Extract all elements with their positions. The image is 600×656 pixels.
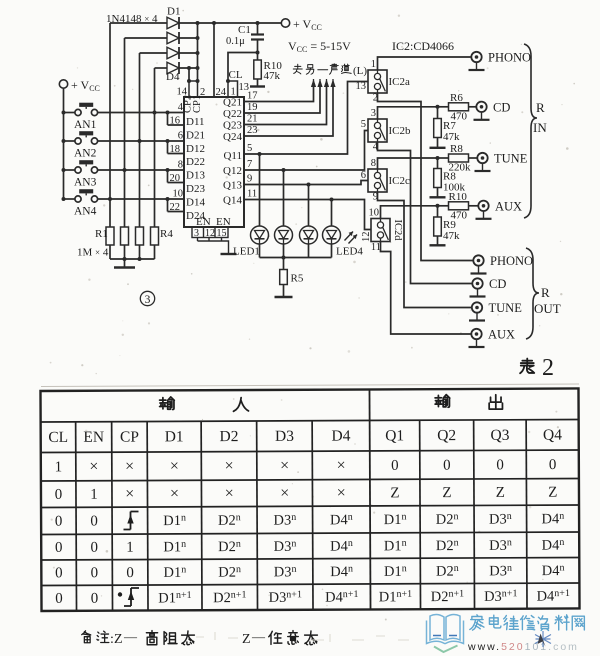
output terminal TUNE (R OUT)	[472, 302, 482, 312]
svg-text:2: 2	[542, 355, 554, 381]
resistor R2	[121, 227, 129, 245]
pin 20 stub box	[167, 170, 169, 183]
watermark: site name (CJK outline)	[470, 615, 484, 630]
header input (CJK)	[160, 397, 175, 410]
resistor R1	[106, 227, 114, 245]
wire: stub left leg to D4 line	[188, 68, 190, 81]
svg-text:Z: Z	[114, 632, 123, 647]
svg-text:0: 0	[496, 457, 504, 473]
node: rail junction	[62, 139, 66, 143]
node R10/R9	[436, 204, 440, 208]
svg-text:1: 1	[55, 459, 63, 475]
svg-text:—: —	[251, 629, 266, 644]
wire: IC2d pin10 to R10/R9 node	[381, 206, 438, 219]
svg-text:1N4148 × 4: 1N4148 × 4	[106, 13, 158, 25]
svg-text:Q12: Q12	[223, 165, 242, 177]
svg-text:R: R	[541, 285, 550, 300]
svg-text:0.1μ: 0.1μ	[226, 36, 245, 47]
wire: switch output to IC1	[98, 140, 184, 142]
svg-text:Q21: Q21	[223, 97, 242, 109]
wire: diode cathode bus down to IC1 clock stub	[197, 23, 199, 81]
svg-text:6: 6	[178, 131, 183, 142]
svg-text:7: 7	[247, 159, 252, 170]
svg-text:1: 1	[126, 540, 134, 556]
svg-text:R4: R4	[160, 228, 173, 240]
svg-text:47k: 47k	[443, 230, 460, 242]
label table-2	[520, 359, 534, 374]
header output (CJK)	[435, 395, 450, 408]
svg-text:CL: CL	[229, 69, 243, 81]
svg-text:PHONO: PHONO	[488, 51, 531, 65]
wire: R1-R4 common rail	[110, 258, 155, 260]
svg-text:Q13: Q13	[223, 180, 242, 192]
node: AN1/column junction	[153, 111, 157, 115]
wire: column v2 (D2 anode to R2/AN3)	[124, 38, 126, 227]
node: Q13 LED tap	[307, 183, 311, 187]
input terminal CD (R IN)	[476, 102, 486, 112]
label: to other channel (L)	[293, 64, 302, 74]
CP rising edge symbols	[118, 512, 139, 607]
svg-text:IC2b: IC2b	[389, 125, 412, 137]
svg-text:22: 22	[170, 202, 181, 213]
svg-text:×: ×	[89, 458, 98, 475]
node: rail junction	[62, 111, 66, 115]
svg-text:Z: Z	[496, 485, 505, 501]
svg-text:9: 9	[247, 174, 252, 185]
svg-text:6: 6	[361, 170, 366, 181]
input terminal TUNE (R IN)	[477, 153, 487, 163]
svg-text:CP: CP	[120, 429, 139, 446]
brace R OUT	[526, 248, 539, 339]
svg-text:Q3: Q3	[490, 427, 509, 444]
wire: switch output to IC1	[98, 198, 184, 200]
svg-text:12: 12	[361, 232, 372, 243]
svg-text:CP1: CP1	[192, 95, 203, 113]
figure number (3)	[140, 291, 154, 305]
LED2	[283, 170, 285, 226]
svg-text:R5: R5	[291, 273, 304, 285]
svg-text:10: 10	[173, 189, 184, 200]
svg-text:23: 23	[247, 125, 258, 136]
svg-text:×: ×	[225, 485, 234, 502]
svg-text:Q2: Q2	[437, 427, 456, 444]
svg-text:Z: Z	[242, 632, 251, 647]
node R8/R8	[436, 156, 440, 160]
node: rail junction	[62, 168, 66, 172]
svg-text:20: 20	[170, 173, 181, 184]
node: Q12 LED tap	[282, 168, 286, 172]
svg-text:TUNE: TUNE	[494, 152, 528, 166]
svg-text:Z: Z	[548, 485, 557, 501]
wire: Q13 to IC2c control	[244, 181, 368, 185]
wire: pin 24 to Vcc line	[213, 23, 215, 97]
svg-text:Q4: Q4	[543, 427, 562, 444]
svg-text:47k: 47k	[443, 131, 460, 143]
svg-text:IC2:CD4066: IC2:CD4066	[392, 39, 454, 53]
svg-text:R: R	[536, 100, 545, 115]
node: AN4/column junction	[108, 197, 112, 201]
svg-text:3: 3	[145, 294, 151, 306]
wire: IC2c pin8 to R8/R8 node	[378, 158, 438, 169]
output terminal PHONO (R OUT)	[473, 255, 483, 265]
switch AN1	[64, 112, 76, 114]
svg-text:www.520101.com: www.520101.com	[467, 641, 579, 653]
svg-text:R6: R6	[450, 92, 463, 104]
faint scan shadow line above table	[41, 384, 579, 387]
resistor R6 470	[438, 106, 449, 108]
resistor R10 (pull-down 47k)	[257, 53, 259, 61]
svg-text:D2: D2	[219, 428, 238, 445]
svg-text:EN: EN	[83, 429, 104, 446]
svg-text:×: ×	[125, 458, 134, 475]
power terminal +Vcc (top)	[281, 19, 289, 27]
svg-text:19: 19	[247, 102, 258, 113]
svg-text:TUNE: TUNE	[489, 301, 523, 315]
svg-text:0: 0	[55, 514, 63, 530]
svg-text:8: 8	[371, 158, 376, 169]
wire: Q12 to IC2b control	[244, 131, 368, 171]
wire: column v3 (D3 anode to R3/AN2)	[139, 53, 141, 227]
svg-text:×: ×	[125, 486, 134, 503]
svg-text:—: —	[123, 629, 138, 644]
node: Q14 LED tap	[330, 198, 334, 202]
switch AN2	[64, 140, 76, 142]
svg-text:IC2c: IC2c	[389, 175, 411, 187]
svg-text:×: ×	[170, 458, 179, 475]
svg-text:×: ×	[225, 458, 234, 475]
pin 16 stub box	[167, 113, 169, 126]
svg-text:21: 21	[247, 114, 258, 125]
svg-text:D12: D12	[186, 143, 205, 155]
ground under R1-R4	[124, 259, 126, 268]
output terminal AUX (R OUT)	[471, 329, 481, 339]
svg-text:Q1: Q1	[385, 427, 404, 444]
svg-text:D4: D4	[331, 428, 350, 445]
resistor R8 220k	[438, 157, 449, 159]
resistor R7 47k	[437, 107, 439, 119]
svg-text:8: 8	[178, 160, 183, 171]
svg-text:0: 0	[90, 513, 98, 529]
svg-text:LED1: LED1	[233, 246, 260, 258]
switch AN4	[64, 198, 76, 200]
svg-text:IN: IN	[533, 120, 547, 135]
input terminal PHONO (R IN)	[471, 52, 481, 62]
diode D4 1N4148	[155, 67, 168, 69]
svg-text:AN1: AN1	[74, 119, 97, 131]
capacitor C1 0.1u	[257, 23, 259, 35]
svg-text:AN4: AN4	[74, 206, 97, 218]
svg-text:IC2a: IC2a	[389, 76, 411, 88]
wire+ground under EN pins	[198, 238, 229, 254]
watermark: asterisk scribble + cursor	[535, 631, 551, 647]
resistor R10 470	[438, 205, 449, 207]
svg-text:D3: D3	[275, 428, 294, 445]
wire: IC2c pin9 to TUNE out bus	[378, 192, 472, 308]
node: diode bus junction	[196, 36, 200, 40]
IC U1 (latch CD4508) body	[184, 97, 244, 227]
svg-text:13: 13	[356, 81, 367, 92]
svg-text:11: 11	[247, 189, 257, 200]
svg-text:OUT: OUT	[534, 301, 561, 316]
wire: Q22 output to channel-L arrow	[244, 86, 320, 113]
svg-text:LED4: LED4	[336, 246, 363, 258]
svg-text:1: 1	[371, 59, 376, 70]
LED3	[308, 185, 310, 227]
node: AN2/column junction	[138, 139, 142, 143]
svg-text:0: 0	[55, 487, 63, 503]
wire: D1 cathode to Vcc line	[179, 22, 281, 24]
svg-text:0: 0	[55, 591, 63, 607]
svg-text:18: 18	[170, 144, 181, 155]
svg-text:R8: R8	[450, 143, 463, 155]
svg-text:×: ×	[280, 457, 289, 474]
node: bus/Vcc-line junction	[196, 21, 200, 25]
svg-text:Q24: Q24	[223, 131, 242, 143]
svg-text:0: 0	[91, 565, 99, 581]
diode D2 1N4148	[125, 37, 168, 39]
svg-text:D21: D21	[186, 129, 205, 141]
svg-text:D14: D14	[186, 196, 205, 208]
resistor R8 100k	[437, 158, 439, 169]
svg-text:11: 11	[371, 242, 381, 253]
svg-text:D13: D13	[186, 170, 205, 182]
svg-text:1M × 4: 1M × 4	[77, 247, 109, 259]
svg-text:EN: EN	[216, 216, 231, 228]
svg-text:C1: C1	[238, 24, 251, 36]
svg-text:AUX: AUX	[488, 328, 515, 342]
svg-text:Z: Z	[442, 485, 451, 501]
wire: IC2b pin4 to CD out bus	[378, 142, 473, 284]
svg-text:0: 0	[443, 458, 451, 474]
table column lines	[369, 389, 370, 609]
svg-text:Q23: Q23	[223, 120, 242, 132]
svg-text:CL: CL	[48, 429, 68, 446]
resistor R5	[283, 258, 285, 270]
analog switch IC2d	[371, 219, 390, 242]
faint print-bleed marks	[196, 632, 409, 642]
svg-text:5: 5	[247, 143, 252, 154]
brace R IN	[524, 44, 537, 218]
wire: Q21 output to channel-L arrow	[244, 86, 314, 102]
LED light arrows	[345, 232, 358, 244]
svg-text:Z: Z	[390, 485, 399, 501]
svg-text:D1: D1	[165, 428, 184, 445]
svg-text:×: ×	[337, 485, 346, 502]
diode D3 1N4148	[140, 52, 168, 54]
svg-text:3: 3	[371, 108, 376, 119]
wire: IC2a pin2 to PHONO out bus	[378, 93, 474, 261]
LED4	[331, 200, 333, 227]
svg-text:0: 0	[549, 457, 557, 473]
node R6/R7	[436, 105, 440, 109]
wire: Q11 to IC2a control	[244, 82, 368, 155]
svg-text:(L): (L)	[353, 65, 367, 77]
resistor R9 47k	[437, 206, 439, 217]
wire: IC2d pin11 to AUX out bus	[381, 242, 472, 335]
svg-text:D4: D4	[166, 71, 180, 83]
LED1	[259, 154, 261, 226]
svg-text:PHONO: PHONO	[490, 254, 533, 268]
svg-text:EN: EN	[196, 216, 211, 228]
node: diode bus junction	[196, 51, 200, 55]
node: diode bus junction	[196, 66, 200, 70]
svg-text:D11: D11	[186, 116, 205, 128]
svg-text:×: ×	[280, 485, 289, 502]
svg-text:R10: R10	[449, 191, 468, 203]
wire: Q23 output to channel-L arrow	[244, 86, 327, 125]
node: Q11 LED tap	[258, 152, 262, 156]
svg-text:15: 15	[217, 228, 227, 239]
svg-text:CD: CD	[493, 100, 510, 114]
node: rail/AN4 junction	[62, 197, 66, 201]
svg-text:AN2: AN2	[74, 148, 97, 160]
svg-text:5: 5	[361, 119, 366, 130]
watermark: book logo	[427, 614, 464, 643]
wire: switch output to IC1	[98, 169, 184, 171]
pin stub 1/CL	[228, 81, 238, 97]
svg-text:0: 0	[391, 458, 399, 474]
svg-text:IC2d: IC2d	[392, 220, 403, 242]
svg-text:0: 0	[91, 591, 99, 607]
wire: switch output to IC1	[98, 112, 184, 114]
svg-text:Q22: Q22	[223, 108, 242, 120]
svg-text:3: 3	[194, 228, 199, 239]
svg-text:×: ×	[170, 485, 179, 502]
pin 22 stub box	[167, 199, 169, 212]
wire: Q14 to IC2d control	[244, 200, 371, 230]
node: AN3/column junction	[123, 168, 127, 172]
svg-text:0: 0	[55, 565, 63, 581]
wire: IC2b pin3 to R6/R7 node	[378, 107, 438, 119]
svg-text:0: 0	[90, 540, 98, 556]
svg-text:D22: D22	[186, 156, 205, 168]
svg-text:0: 0	[126, 565, 134, 581]
svg-text:Q11: Q11	[223, 150, 242, 162]
wire: LED cathode bus	[260, 257, 332, 259]
svg-text:47k: 47k	[264, 70, 281, 82]
truth table frame	[40, 388, 579, 611]
bottom stub cells pins 3/12/15	[192, 227, 228, 238]
wire: IC2a pin1 to PHONO in	[378, 57, 472, 70]
analog switch IC2a	[368, 70, 387, 93]
wire: CL bend from C1 node	[228, 53, 258, 82]
diode D1 1N4148	[110, 22, 167, 24]
svg-text:D1: D1	[167, 6, 180, 18]
input terminal AUX (R IN)	[478, 201, 488, 211]
svg-text:AN3: AN3	[74, 177, 97, 189]
svg-text:×: ×	[337, 457, 346, 474]
output terminal CD (R OUT)	[472, 278, 482, 288]
wire: column v4 (D4 anode to R4/AN1)	[154, 68, 156, 227]
wire: Q24 output to channel-L arrow	[244, 86, 333, 136]
node: rail junctions	[123, 257, 127, 261]
svg-text:Q14: Q14	[223, 195, 242, 207]
svg-text:12: 12	[205, 228, 215, 239]
footnote: remark Z=high-impedance, x=dont care	[82, 631, 91, 643]
svg-text:AUX: AUX	[495, 199, 522, 213]
svg-text:17: 17	[247, 91, 258, 102]
svg-text:D23: D23	[186, 183, 205, 195]
wire: column v1 (D1 anode to R1/AN4)	[109, 23, 111, 227]
power terminal +Vcc (left)	[59, 80, 67, 88]
node: bus/R5 junction	[282, 256, 286, 260]
resistor R3	[136, 227, 144, 245]
resistor R4	[151, 227, 159, 245]
switch AN3	[64, 169, 76, 171]
svg-text:CD: CD	[489, 277, 506, 291]
svg-text:10: 10	[369, 208, 380, 219]
analog switch IC2c	[368, 169, 387, 192]
wire: Vcc rail down to switches	[63, 88, 65, 199]
svg-text:16: 16	[170, 116, 181, 127]
svg-text:0: 0	[55, 540, 63, 556]
pin 18 stub box	[167, 141, 169, 154]
svg-text:R1: R1	[95, 228, 108, 240]
svg-text:1: 1	[90, 487, 98, 503]
analog switch IC2b	[368, 119, 387, 142]
pin stub 14/2 (clock)	[189, 81, 198, 97]
